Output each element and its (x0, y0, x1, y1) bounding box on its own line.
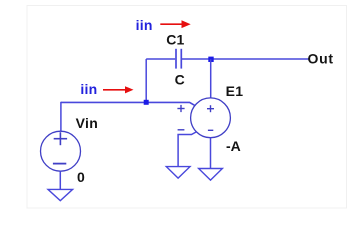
label C (capacitor value) (175, 71, 185, 87)
label iin (top, current into cap) (136, 17, 153, 33)
ground (under E1 - control) (166, 167, 190, 179)
label C1 (166, 32, 184, 48)
wire: E1 - control pin to ground (178, 132, 196, 167)
wire: riser from mid net up to capacitor (145, 59, 147, 102)
ground 0 (under Vin) (48, 189, 73, 200)
ground (under E1 output) (199, 169, 223, 181)
svg-text:E1: E1 (226, 83, 244, 99)
label Vin (76, 115, 99, 131)
label 0 (77, 169, 85, 185)
capacitor C1 (176, 49, 181, 69)
wire: mid net from Vin to E1 + control pin (61, 102, 195, 105)
label Out (node) (308, 51, 334, 67)
svg-text:iin: iin (136, 17, 153, 33)
voltage source Vin (41, 131, 81, 171)
junction: top node at E1 output (208, 57, 213, 62)
schematic page border (27, 6, 347, 209)
svg-text:Out: Out (308, 51, 334, 67)
svg-text:-A: -A (226, 138, 241, 154)
wire: Vin bottom lead (59, 171, 61, 189)
svg-text:iin: iin (80, 81, 97, 97)
wire: E1 output bottom lead (210, 138, 212, 169)
wire: capacitor left lead (top net) (146, 58, 175, 60)
label E1 (226, 83, 244, 99)
svg-text:C: C (175, 71, 185, 87)
junction: mid node (144, 100, 149, 105)
wire: capacitor right lead to Out (182, 58, 309, 60)
svg-text:C1: C1 (166, 32, 184, 48)
wire: E1 output top pin (210, 59, 212, 98)
current arrow (mid) (103, 86, 134, 93)
label iin (mid net) (80, 81, 97, 97)
wire: Vin top lead (60, 102, 62, 132)
current arrow (top) (160, 20, 190, 28)
svg-text:0: 0 (77, 169, 85, 185)
svg-text:Vin: Vin (76, 115, 99, 131)
label -A (gain) (226, 138, 241, 154)
VCVS E1 (177, 98, 230, 138)
